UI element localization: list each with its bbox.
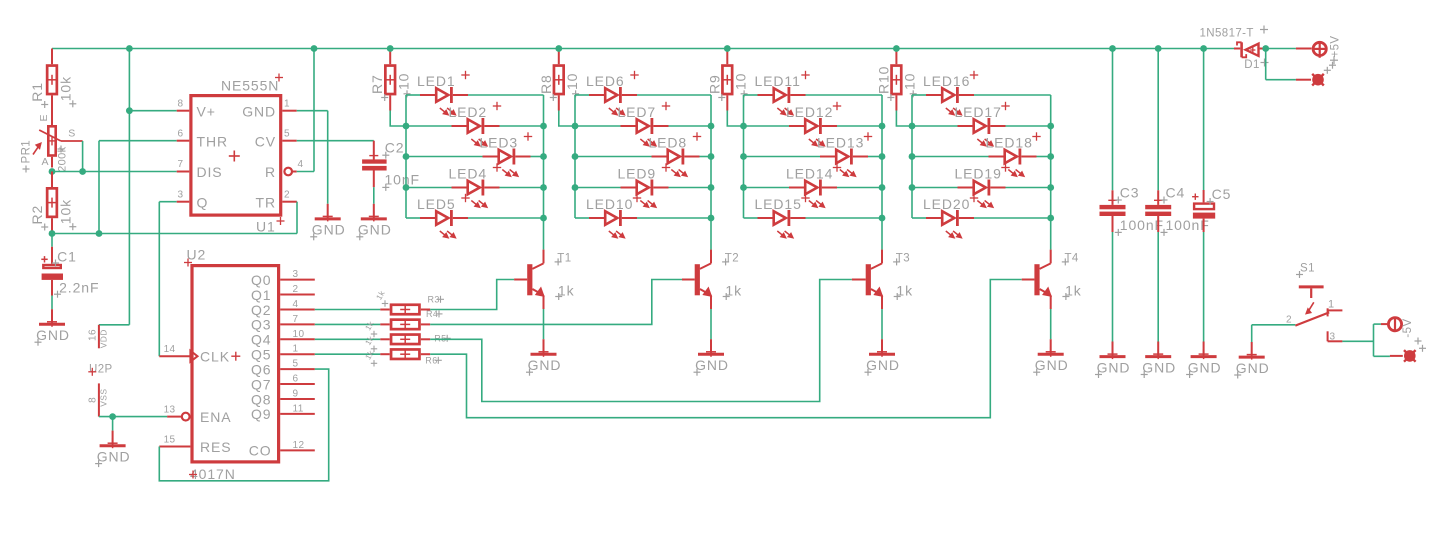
svg-text:1k: 1k (374, 288, 387, 301)
U2 pin 13 ENA inverted (164, 405, 232, 426)
wire LED rail right block 2 (710, 95, 712, 250)
svg-text:10k: 10k (57, 76, 73, 101)
node junction (1047, 215, 1054, 222)
svg-text:S1: S1 (1300, 263, 1315, 275)
svg-text:GND: GND (242, 103, 276, 119)
U1 pin 5 CV (255, 129, 297, 150)
svg-text:GND: GND (1142, 359, 1176, 375)
resistor R8 10 (538, 49, 580, 111)
svg-text:Q2: Q2 (251, 302, 271, 318)
node junction R10 rail (893, 45, 900, 52)
wire pin4 to rail (297, 49, 314, 172)
svg-text:LED8: LED8 (649, 135, 688, 151)
svg-text:LED5: LED5 (417, 196, 456, 212)
svg-text:R7: R7 (369, 74, 385, 94)
wire Q output to R5 (315, 338, 381, 340)
wire LED row 2 block 2 (575, 125, 711, 127)
svg-text:6: 6 (293, 374, 299, 385)
wire C2 to gnd (373, 187, 375, 204)
ground under C5 (1186, 342, 1221, 379)
svg-text:D1: D1 (1244, 59, 1260, 71)
svg-text:LED10: LED10 (586, 196, 633, 212)
ground under U2P (95, 431, 130, 468)
node junction (1047, 123, 1054, 130)
wire R9 bottom (727, 111, 743, 127)
wire LED row 5 block 2 (575, 217, 711, 219)
wire R5 to transistor base (430, 280, 852, 402)
svg-text:Q4: Q4 (251, 332, 271, 348)
U2 pin 15 RES (159, 435, 231, 456)
LED6 (586, 71, 639, 115)
resistor R5 1k (363, 333, 450, 352)
LED8 (649, 132, 702, 176)
svg-text:Q9: Q9 (251, 406, 271, 422)
node junction (879, 153, 886, 160)
svg-text:3: 3 (1330, 332, 1336, 343)
U2 pin 11 Q9 (251, 403, 315, 422)
svg-text:GND: GND (1097, 359, 1131, 375)
wire C5 to gnd (1203, 232, 1205, 342)
node junction R9 rail (724, 45, 731, 52)
connector pin +5V (1296, 36, 1342, 65)
resistor R1 (29, 49, 76, 126)
svg-text:3: 3 (293, 269, 299, 280)
node junction (909, 153, 916, 160)
wire LED row 3 block 1 (406, 156, 544, 158)
resistor R10 10 (875, 49, 917, 111)
node junction C5 rail (1200, 45, 1207, 52)
svg-text:CO: CO (249, 443, 272, 459)
wire C1 to gnd (51, 296, 53, 310)
wire LED row 4 block 3 (744, 187, 883, 189)
svg-text:14: 14 (164, 344, 176, 355)
node junction V+ pin8 (126, 107, 133, 114)
svg-text:T1: T1 (557, 253, 571, 265)
LED7 (618, 102, 671, 146)
capacitor C2 10nF (362, 139, 420, 191)
wire T1 emitter to gnd (543, 309, 545, 339)
svg-text:10: 10 (293, 329, 305, 340)
node junction (403, 123, 410, 130)
capacitor C1 2.2nF (41, 234, 99, 298)
svg-text:3: 3 (178, 190, 184, 201)
node junction C3 rail (1109, 45, 1116, 52)
connector pad gnd top (1296, 62, 1336, 86)
svg-text:GND: GND (1035, 357, 1069, 373)
node junction (572, 184, 579, 191)
node junction 555 reset rail (311, 45, 318, 52)
U1 pin 1 GND (242, 99, 297, 120)
svg-text:+5V: +5V (1330, 36, 1342, 58)
svg-text:LED4: LED4 (449, 166, 488, 182)
svg-text:R2: R2 (29, 205, 45, 225)
svg-text:LED1: LED1 (417, 73, 456, 89)
node junction THR column (96, 230, 103, 237)
svg-text:U1: U1 (256, 219, 276, 235)
svg-text:S: S (68, 128, 75, 140)
capacitor C3 100nF (1100, 49, 1165, 236)
wire LED rail left block 2 (574, 95, 576, 218)
svg-text:LED19: LED19 (955, 166, 1002, 182)
wire DIS net (52, 171, 177, 173)
wire +5V top rail (52, 48, 1234, 50)
U2 pin 3 Q0 (251, 269, 315, 288)
svg-text:VSS: VSS (99, 389, 109, 407)
U1 pin 2 TR (256, 190, 297, 211)
U2 pin 5 Q6 (251, 359, 315, 378)
U1 pin 7 DIS (177, 159, 223, 180)
svg-text:2: 2 (1286, 315, 1292, 326)
node junction (540, 123, 547, 130)
wire R4 to transistor base (430, 280, 682, 325)
wire S1 pin2 to gnd (1252, 325, 1296, 342)
node junction (708, 184, 715, 191)
svg-text:Q7: Q7 (251, 376, 271, 392)
svg-text:10: 10 (564, 73, 580, 90)
capacitor C5 polarized (1192, 49, 1231, 233)
svg-text:CLK: CLK (200, 349, 230, 365)
svg-text:2: 2 (293, 284, 299, 295)
svg-text:C2: C2 (385, 139, 405, 155)
svg-text:6: 6 (178, 129, 184, 140)
svg-text:R: R (265, 164, 276, 180)
svg-text:GND: GND (312, 222, 346, 238)
diode D1 1N5817 (1200, 26, 1269, 71)
ground U1 pin1 (310, 204, 345, 241)
node junction (740, 123, 747, 130)
svg-text:PR1: PR1 (21, 140, 33, 164)
wire Q output to R4 (315, 323, 381, 325)
wire LED row 3 block 4 (912, 156, 1051, 158)
ground under C3 (1095, 342, 1130, 379)
svg-text:DIS: DIS (197, 164, 223, 180)
svg-text:LED20: LED20 (923, 196, 970, 212)
wire Q to CLK (159, 202, 176, 357)
wire LED rail right block 1 (543, 95, 545, 250)
svg-text:Q6: Q6 (251, 361, 271, 377)
svg-text:CV: CV (255, 133, 276, 149)
svg-text:ENA: ENA (200, 409, 232, 425)
wire LED row 3 block 3 (744, 156, 883, 158)
wire LED row 5 block 1 (406, 217, 544, 219)
resistor R7 10 (369, 49, 411, 111)
U1 pin 4 R inverted (265, 159, 304, 180)
ground under C1 (35, 309, 70, 346)
svg-text:10: 10 (902, 73, 918, 90)
LED10 (586, 194, 641, 238)
wire VSS to ENA (99, 416, 167, 418)
svg-text:LED9: LED9 (618, 166, 657, 182)
svg-text:1: 1 (284, 99, 290, 110)
svg-text:1: 1 (1328, 299, 1335, 311)
node junction (708, 123, 715, 130)
wire TR drop (296, 202, 298, 234)
svg-text:LED12: LED12 (786, 104, 833, 120)
potentiometer PR1 200k (21, 114, 83, 172)
wire LED rail right block 4 (1050, 95, 1052, 250)
node junction (708, 153, 715, 160)
LED9 (618, 163, 671, 207)
svg-text:10k: 10k (57, 199, 73, 224)
wire CV to C2 (297, 140, 374, 142)
LED3 (480, 132, 533, 176)
U2 pin 7 Q3 (251, 314, 315, 333)
wire LED rail right block 3 (881, 95, 883, 250)
node junction V+ rail (126, 45, 133, 52)
wire Q output to R3 (315, 309, 381, 311)
svg-text:GND: GND (358, 222, 392, 238)
LED14 (786, 163, 841, 207)
node junction C4 rail (1155, 45, 1162, 52)
node junction (1047, 153, 1054, 160)
svg-text:LED16: LED16 (923, 73, 970, 89)
node junction D1 out (1262, 45, 1269, 52)
svg-text:Q8: Q8 (251, 391, 271, 407)
transistor T2 (682, 250, 742, 309)
wire LED row 2 block 1 (406, 125, 544, 127)
U1 pin 6 THR (177, 129, 228, 150)
svg-text:LED17: LED17 (955, 104, 1002, 120)
svg-text:GND: GND (695, 357, 729, 373)
U2 pin 1 Q5 (251, 344, 315, 363)
svg-text:T2: T2 (725, 253, 739, 265)
svg-text:C4: C4 (1166, 185, 1186, 201)
svg-text:RES: RES (200, 439, 232, 455)
LED1 (417, 71, 470, 115)
wire R7 bottom (390, 111, 406, 127)
svg-text:VDD: VDD (99, 329, 109, 348)
LED17 (955, 102, 1010, 146)
LED16 (923, 71, 978, 115)
svg-text:Q3: Q3 (251, 317, 271, 333)
wire LED row 1 block 1 (406, 94, 544, 96)
LED19 (955, 163, 1010, 207)
svg-text:2.2nF: 2.2nF (59, 280, 99, 296)
svg-text:THR: THR (197, 133, 228, 149)
svg-text:12: 12 (293, 440, 305, 451)
svg-text:LED15: LED15 (755, 196, 802, 212)
svg-text:15: 15 (164, 435, 176, 446)
ground under S1 (1234, 342, 1269, 379)
U1 pin 3 Q (177, 190, 209, 211)
node junction wiper (79, 168, 86, 175)
svg-text:9: 9 (293, 389, 299, 400)
node junction (540, 184, 547, 191)
wire TR stub (296, 201, 298, 203)
resistor R2 (29, 172, 76, 234)
power gate U2P (88, 325, 113, 417)
svg-text:LED18: LED18 (986, 135, 1033, 151)
transistor T3 (852, 250, 913, 309)
svg-text:GND: GND (1236, 360, 1270, 376)
wire R8 bottom (559, 111, 575, 127)
wire LED row 4 block 4 (912, 187, 1051, 189)
LED12 (786, 102, 841, 146)
svg-text:1: 1 (293, 344, 299, 355)
connector pad gnd bottom (1390, 350, 1416, 362)
svg-text:T3: T3 (896, 253, 910, 265)
wire Q output to R6 (315, 353, 381, 355)
svg-text:R8: R8 (538, 74, 554, 94)
node junction (403, 184, 410, 191)
svg-text:TR: TR (256, 194, 276, 210)
node junction R2 bottom (49, 230, 56, 237)
svg-text:R1: R1 (29, 82, 45, 102)
node junction (909, 184, 916, 191)
node junction (403, 153, 410, 160)
LED13 (817, 132, 872, 176)
node junction (909, 123, 916, 130)
op-amp U1 NE555N box (191, 74, 285, 235)
node junction (879, 215, 886, 222)
wire pin1 to gnd (297, 111, 328, 204)
svg-text:5: 5 (284, 129, 290, 140)
svg-text:LED6: LED6 (586, 73, 625, 89)
node junction (740, 153, 747, 160)
svg-text:8: 8 (88, 397, 99, 403)
wire LED row 2 block 4 (912, 125, 1051, 127)
node junction pot bottom (49, 168, 56, 175)
svg-text:GND: GND (97, 448, 131, 464)
resistor R6 1k (363, 348, 441, 366)
svg-text:GND: GND (866, 357, 900, 373)
ground under T4 (1033, 339, 1068, 376)
LED2 (449, 102, 502, 146)
connector pin -5V (1381, 317, 1426, 352)
svg-text:NE555N: NE555N (221, 78, 279, 94)
svg-text:4: 4 (293, 299, 299, 310)
svg-text:LED2: LED2 (449, 104, 488, 120)
wire LED row 4 block 2 (575, 187, 711, 189)
svg-text:7: 7 (293, 314, 299, 325)
resistor R9 10 (706, 49, 748, 111)
wire to supply gnd pad (1266, 49, 1296, 80)
wire to +5V pin (1266, 48, 1296, 50)
counter U2 4017N box (184, 247, 279, 483)
svg-text:1N5817-T: 1N5817-T (1200, 27, 1254, 39)
svg-text:13: 13 (164, 405, 176, 416)
U2 pin 2 Q1 (251, 284, 315, 303)
wire LED row 1 block 3 (744, 94, 883, 96)
wire bottom node THR/TR/C1 (52, 233, 297, 235)
wire R3 to transistor base (430, 280, 514, 310)
node junction (879, 184, 886, 191)
svg-text:8: 8 (178, 99, 184, 110)
capacitor C4 100nF (1145, 49, 1210, 236)
wire T2 emitter to gnd (710, 309, 712, 339)
svg-text:11: 11 (293, 403, 304, 414)
resistor R3 1k (374, 288, 444, 314)
svg-text:R9: R9 (706, 74, 722, 94)
svg-text:R10: R10 (875, 66, 891, 94)
svg-text:GND: GND (36, 327, 70, 343)
U2 pin 10 Q4 (251, 329, 315, 348)
svg-text:2: 2 (284, 190, 290, 201)
svg-text:10: 10 (396, 73, 412, 90)
svg-text:4: 4 (298, 159, 304, 170)
svg-text:U2: U2 (187, 247, 207, 263)
svg-text:C3: C3 (1120, 185, 1140, 201)
svg-text:LED7: LED7 (618, 104, 657, 120)
U2 pin 4 Q2 (251, 299, 315, 318)
U2 pin 6 Q7 (251, 374, 315, 393)
svg-text:LED13: LED13 (817, 135, 864, 151)
svg-text:GND: GND (528, 357, 562, 373)
LED18 (986, 132, 1041, 176)
wire V+ to pin 8 (129, 110, 176, 112)
svg-text:7: 7 (178, 159, 184, 170)
node junction R8 rail (555, 45, 562, 52)
svg-text:LED14: LED14 (786, 166, 833, 182)
svg-text:E: E (38, 114, 50, 121)
wire pot wiper drop (82, 141, 84, 172)
switch S1 (1286, 263, 1342, 343)
LED5 (417, 194, 470, 238)
wire LED row 2 block 3 (744, 125, 883, 127)
wire LED row 3 block 2 (575, 156, 711, 158)
svg-text:V+: V+ (197, 103, 216, 119)
node junction (1047, 184, 1054, 191)
wire R6 to transistor base (430, 280, 1022, 418)
wire LED rail left block 3 (743, 95, 745, 218)
svg-text:Q1: Q1 (251, 287, 271, 303)
svg-text:T4: T4 (1065, 253, 1079, 265)
U2 pin 9 Q8 (251, 389, 315, 408)
wire LED row 5 block 4 (912, 217, 1051, 219)
wire LED row 5 block 3 (744, 217, 883, 219)
resistor R4 1k (363, 309, 442, 337)
svg-text:Q5: Q5 (251, 347, 271, 363)
wire LED rail left block 1 (405, 95, 407, 218)
svg-text:10: 10 (733, 73, 749, 90)
wire V+ / VDD column (99, 49, 129, 325)
wire LED rail left block 4 (911, 95, 913, 218)
wire R10 bottom (896, 111, 912, 127)
svg-text:A: A (42, 156, 49, 168)
ground under C2 (356, 204, 391, 241)
svg-text:10nF: 10nF (385, 171, 421, 187)
LED4 (449, 163, 502, 207)
svg-text:200k: 200k (57, 146, 69, 172)
node junction (540, 153, 547, 160)
ground under T3 (865, 339, 900, 376)
node junction (572, 123, 579, 130)
node junction (740, 184, 747, 191)
svg-text:1k: 1k (363, 319, 376, 332)
svg-text:C5: C5 (1212, 186, 1232, 202)
ground under T1 (526, 339, 561, 376)
wire RES to Q6 (159, 369, 328, 481)
node junction (708, 215, 715, 222)
svg-text:GND: GND (1188, 359, 1222, 375)
wire C3 to gnd (1112, 232, 1114, 342)
node junction (879, 123, 886, 130)
U2 pin 12 CO (249, 440, 315, 459)
wire LED row 1 block 4 (912, 94, 1051, 96)
wire LED row 1 block 2 (575, 94, 711, 96)
wire C4 to gnd (1157, 232, 1159, 342)
transistor T1 (514, 250, 574, 309)
ground under C4 (1141, 342, 1176, 379)
U2 pin 14 CLK (159, 344, 240, 365)
wire T3 emitter to gnd (881, 309, 883, 339)
node junction VSS gnd (109, 413, 116, 420)
LED15 (755, 194, 810, 238)
wire THR net (99, 141, 177, 234)
transistor T4 (1022, 250, 1082, 309)
wire T4 emitter to gnd (1050, 309, 1052, 339)
wire S1 pin3 to connector (1342, 324, 1390, 356)
